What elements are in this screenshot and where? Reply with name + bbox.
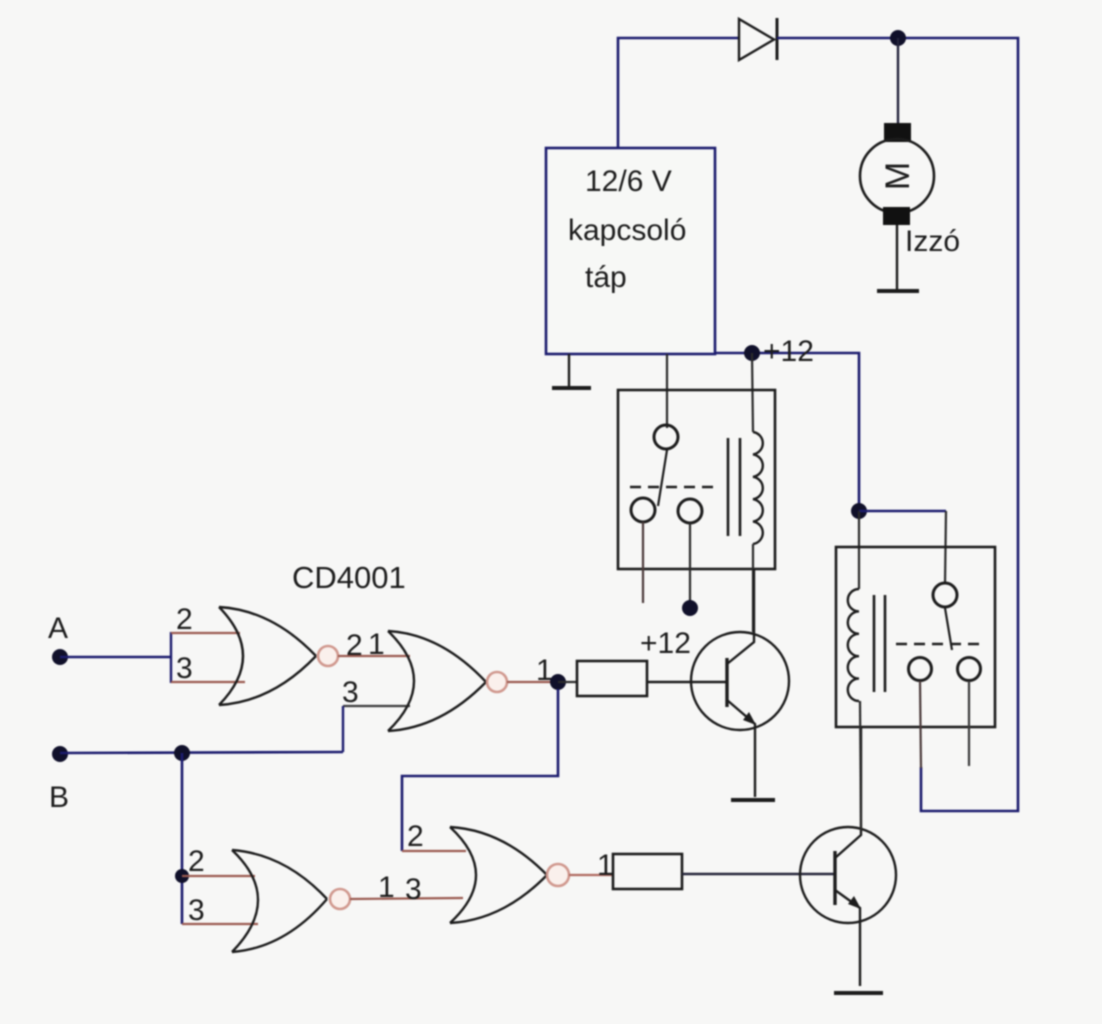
svg-text:B: B (49, 781, 69, 814)
svg-text:2: 2 (346, 629, 363, 662)
wire G4 pin2 stub (402, 850, 466, 852)
node B branch (174, 745, 190, 761)
wire K2 NC contact down to lamp return (920, 681, 921, 768)
node +12 mid (682, 600, 698, 616)
wire relay K1 NO contact to +12 node (689, 523, 691, 601)
transistor Q2 base bar (833, 851, 836, 905)
NOR gate G4 (450, 827, 547, 923)
wire node to R1 (558, 681, 577, 683)
lamp terminal bottom (883, 207, 910, 225)
node G3 input (175, 869, 189, 883)
relay K1 dashed actuation line (630, 486, 716, 489)
wire G2 out to node (507, 681, 558, 683)
transistor Q1 body (691, 632, 789, 730)
Q1 emitter arrow (743, 712, 756, 725)
gate G2 output bubble (487, 672, 507, 692)
relay K1 coil (753, 432, 763, 544)
svg-text:3: 3 (405, 873, 422, 906)
wire G3 pin2 stub (182, 875, 255, 877)
feedback wire G2 out to G4 pin2 (402, 689, 558, 851)
relay K2 contact NO (958, 658, 981, 681)
wire gate1 input tie (170, 632, 172, 683)
wire R1 to Q1 base (647, 681, 727, 683)
wire G3 pin3 stub (182, 923, 258, 925)
wire B rail to G2 pin3 (342, 706, 344, 752)
svg-text:M: M (879, 162, 917, 190)
wire G2 pin3 stub (343, 705, 410, 707)
relay K2 dashed actuation line (896, 643, 979, 646)
svg-text:CD4001: CD4001 (292, 560, 406, 595)
wire lamp to ground (896, 225, 898, 290)
gate G3 output bubble (330, 889, 350, 909)
transistor Q1 base bar (725, 658, 728, 707)
svg-text:1: 1 (597, 849, 614, 882)
relay K2 coil (848, 589, 859, 701)
wire relay K1 coil to Q1 collector (752, 544, 754, 632)
svg-text:2: 2 (188, 845, 205, 878)
svg-text:+12: +12 (640, 627, 691, 660)
relay K1 core (728, 438, 740, 536)
relay K2 contact NC (909, 658, 932, 681)
wire diode to top-right corner and right rail down (777, 38, 1018, 811)
wire top rail from supply box to diode (618, 38, 739, 148)
lamp (motor symbol) terminal top (884, 123, 911, 142)
diode D1 (739, 18, 777, 60)
Q2 emitter arrow (848, 896, 861, 909)
node A (52, 649, 68, 665)
node +12 right (851, 503, 867, 519)
wire +12 node to relay K2 switch (859, 510, 946, 513)
relay K1 common contact (654, 425, 678, 449)
svg-text:2: 2 (407, 820, 424, 853)
svg-text:3: 3 (188, 894, 205, 927)
resistor R1 (577, 661, 647, 696)
transistor Q2 collector (835, 727, 861, 858)
+12 rail from supply to relay K2 (715, 353, 859, 511)
ground under lamp (877, 289, 919, 293)
NOR gate G1 (219, 607, 316, 705)
gate G1 output bubble (318, 646, 338, 666)
svg-text:3: 3 (176, 652, 193, 685)
relay K1 contact NC (631, 498, 655, 522)
relay K2 armature (945, 608, 952, 650)
NOR gate G2 (388, 631, 486, 731)
wire input A (60, 656, 171, 659)
svg-text:1: 1 (368, 628, 385, 661)
svg-text:3: 3 (342, 676, 359, 709)
wire relay K1 NC contact down (642, 522, 644, 603)
relay K2 box (836, 547, 995, 727)
wire B branch down to G3 (181, 753, 184, 924)
wire junction to lamp (897, 38, 899, 124)
wire +12 node to relay K1 coil (752, 353, 753, 432)
lamp body M circle (860, 139, 934, 213)
transistor Q1 emitter (727, 700, 755, 797)
wire K2 NO contact down (968, 681, 970, 766)
resistor R2 (613, 854, 682, 889)
svg-text:+12: +12 (763, 335, 814, 368)
wire R2 to Q2 base (682, 873, 835, 875)
wire G3 out to G4 pin3 (350, 898, 463, 899)
NOR gate G3 (232, 850, 327, 952)
power supply box U1 (546, 148, 715, 354)
node G2 output (550, 674, 566, 690)
relay K2 core (874, 595, 885, 692)
relay K1 box (618, 390, 775, 569)
wire gate1 pin3 stub (171, 681, 245, 683)
transistor Q2 body (800, 827, 896, 923)
node B (52, 746, 68, 762)
svg-text:12/6 V: 12/6 V (585, 165, 672, 198)
transistor Q2 emitter (835, 890, 860, 986)
transistor Q1 collector (727, 569, 754, 664)
wire down to K2 common (945, 511, 946, 584)
wire supply output to relay K1 switch (666, 354, 668, 428)
wire G4 out to R2 (569, 874, 613, 876)
wire supply to ground (568, 354, 570, 388)
wire K2 coil to Q2 collector (860, 701, 861, 830)
node at diode/lamp junction (890, 30, 906, 46)
relay K2 common contact (933, 583, 957, 607)
svg-text:A: A (48, 612, 68, 645)
node +12 top (744, 345, 760, 361)
wire +12 node to K2 coil (858, 511, 860, 589)
svg-text:1: 1 (378, 871, 395, 904)
wire G1 out to G2 in (338, 655, 410, 657)
svg-text:kapcsoló: kapcsoló (568, 214, 686, 247)
ground under Q2 (834, 991, 883, 995)
wire input B rail (60, 752, 343, 753)
svg-text:2: 2 (176, 603, 193, 636)
ground under supply (552, 386, 591, 390)
wire gate1 pin2 stub (171, 632, 240, 634)
relay K1 armature (658, 450, 667, 506)
svg-text:Izzó: Izzó (905, 225, 960, 258)
svg-text:táp: táp (585, 261, 627, 294)
ground under Q1 (731, 798, 775, 802)
gate G4 output bubble (547, 864, 569, 886)
relay K1 contact NO (678, 499, 702, 523)
